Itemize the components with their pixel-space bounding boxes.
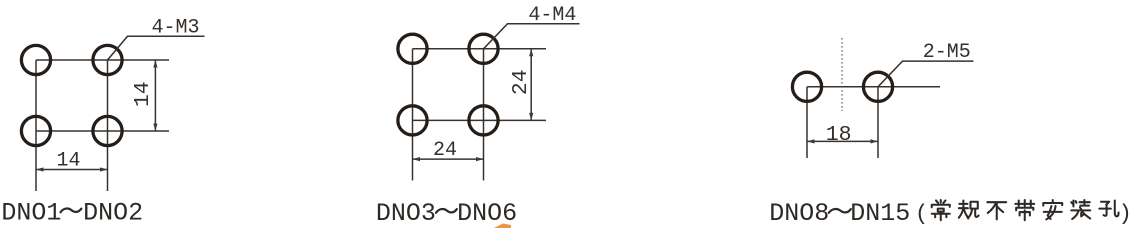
svg-text:DNO1: DNO1 <box>1 199 61 228</box>
hole circle right <box>863 72 892 101</box>
CJK char 规 <box>959 200 979 218</box>
wire right side (hole centerline, extended down as extension line) <box>107 60 109 191</box>
arrowhead down <box>153 124 157 132</box>
svg-text:4-M3: 4-M3 <box>152 16 200 39</box>
wire left side (hole centerline, extended down as extension line) <box>35 60 37 191</box>
svg-text:14: 14 <box>56 150 80 173</box>
wire top side (hole centerline, extended right as extension line) <box>413 48 547 50</box>
svg-text:2-M5: 2-M5 <box>923 41 971 64</box>
arrowhead right <box>476 157 484 161</box>
CJK char 安 <box>1043 200 1062 219</box>
hole circle top-left <box>21 45 50 74</box>
hole circle left <box>792 72 821 101</box>
logo fragment orange <box>494 224 511 229</box>
svg-text:(: ( <box>915 201 928 226</box>
svg-text:24: 24 <box>509 70 533 96</box>
CJK char 常 <box>932 200 950 220</box>
CJK char 装 <box>1071 200 1090 219</box>
CJK char 不 <box>987 202 1006 219</box>
tilde 2 <box>436 209 457 213</box>
hole circle bottom-right <box>93 116 122 145</box>
hole circle top-left <box>398 34 427 63</box>
hole circle top-right <box>93 45 122 74</box>
tilde 1 <box>61 209 82 213</box>
CJK char 带 <box>1015 200 1034 220</box>
svg-text:DN15: DN15 <box>850 199 910 228</box>
wire right side (hole centerline, extended down as extension line) <box>483 49 485 181</box>
dimension line horizontal 18 <box>807 140 878 142</box>
svg-text:): ) <box>1119 201 1132 226</box>
CJK char 孔 <box>1099 200 1118 216</box>
arrowhead left <box>413 157 421 161</box>
leader line 2-M5 <box>878 61 974 87</box>
tilde 3 <box>829 209 851 213</box>
hole circle bottom-left <box>21 116 50 145</box>
svg-text:14: 14 <box>131 81 155 107</box>
svg-text:DNO8: DNO8 <box>769 199 829 228</box>
dimension line horizontal 14 <box>36 169 108 171</box>
svg-text:DNO2: DNO2 <box>83 199 143 228</box>
wire bottom side (hole centerline, extended right as extension line) <box>413 119 547 121</box>
svg-text:18: 18 <box>826 123 852 147</box>
wire left side (hole centerline, extended down as extension line) <box>412 49 414 181</box>
wire horizontal hole centerline extended right <box>807 86 940 88</box>
hole circle bottom-right <box>469 106 498 135</box>
hole circle bottom-left <box>398 106 427 135</box>
leader line 4-M3 <box>108 36 205 60</box>
svg-text:DNO6: DNO6 <box>457 199 517 228</box>
arrowhead up <box>529 49 533 57</box>
svg-text:4-M4: 4-M4 <box>528 4 576 27</box>
hole circle top-right <box>469 34 498 63</box>
wire extension line down from right hole <box>877 87 879 158</box>
wire top side (hole centerline, extended right as extension line) <box>36 59 169 61</box>
dimension line vertical 24 <box>530 49 532 121</box>
svg-text:DNO3: DNO3 <box>376 199 436 228</box>
arrowhead up <box>153 60 157 68</box>
wire bottom side (hole centerline, extended right as extension line) <box>36 130 169 132</box>
arrowhead right <box>871 139 879 143</box>
centerline dotted vertical <box>841 38 843 111</box>
svg-text:24: 24 <box>433 139 457 162</box>
arrowhead right <box>100 167 108 171</box>
arrowhead left <box>807 139 815 143</box>
leader line 4-M4 <box>484 24 580 49</box>
arrowhead down <box>529 113 533 121</box>
wire extension line down from left hole <box>806 87 808 158</box>
dimension line horizontal 24 <box>413 158 484 160</box>
dimension line vertical 14 <box>154 60 156 131</box>
arrowhead left <box>36 167 44 171</box>
